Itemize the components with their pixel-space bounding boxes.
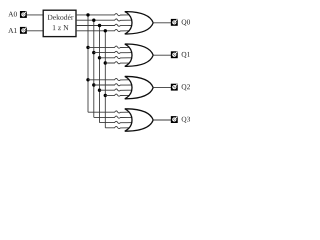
label A0 <box>8 12 13 17</box>
wire tap net V4 to gate U4 input 4 <box>105 94 132 96</box>
wire tap net V4 to gate U3 input 4 <box>105 62 132 64</box>
wire A1 to decoder <box>27 30 43 32</box>
junction dot net V4 at gate U3 <box>104 61 107 64</box>
junction dot net V4 at bus line 4 <box>104 29 107 32</box>
wire output Q1 <box>153 54 171 56</box>
decoder U1 label line 1 <box>48 15 53 20</box>
junction dot net V3 at gate U4 <box>98 89 101 92</box>
label A1 <box>8 28 13 33</box>
label Q1 <box>182 52 187 58</box>
wire tap net V1 to gate U3 input 1 <box>88 46 133 48</box>
junction dot net V3 at bus line 3 <box>98 24 101 27</box>
label Q0 <box>182 20 187 26</box>
or-gate U2 (output Q0) <box>125 12 153 34</box>
wire tap net V2 to gate U3 input 2 <box>94 51 133 53</box>
wire tap net V3 to gate U4 input 3 <box>100 89 133 91</box>
wire output Q0 <box>153 22 171 24</box>
input connector A0 <box>20 11 27 18</box>
wire vertical net V1 <box>87 15 89 112</box>
junction dot net V1 at gate U3 <box>86 46 89 49</box>
wire tap net V2 to gate U5 input 2 <box>94 116 133 118</box>
output connector Q0 <box>171 19 178 26</box>
input connector A1 <box>20 27 27 34</box>
wire tap net V2 to gate U4 input 2 <box>94 84 133 86</box>
output connector Q3 <box>171 116 178 123</box>
wire output Q3 <box>153 119 171 121</box>
wire tap net V3 to gate U5 input 3 <box>100 121 133 123</box>
wire bus line 2 from decoder to or-gate U2 <box>76 19 133 21</box>
wire vertical net V4 <box>104 31 106 128</box>
wire tap net V1 to gate U4 input 1 <box>88 78 133 80</box>
or-gate U4 (output Q2) <box>125 76 153 98</box>
junction dot net V1 at bus line 1 <box>86 13 89 16</box>
output connector Q1 <box>171 51 178 58</box>
or-gate U5 (output Q3) <box>125 109 153 131</box>
wire bus line 4 from decoder to or-gate U2 <box>76 29 133 31</box>
junction dot net V4 at gate U4 <box>104 94 107 97</box>
junction dot net V1 at gate U4 <box>86 78 89 81</box>
output connector Q2 <box>171 84 178 91</box>
decoder U1 box <box>43 10 76 36</box>
wire tap net V4 to gate U5 input 4 <box>105 126 132 128</box>
or-gate U3 (output Q1) <box>125 44 153 66</box>
decoder U1 label line 2 <box>53 25 56 30</box>
junction dot net V2 at gate U3 <box>92 51 95 54</box>
wire tap net V1 to gate U5 input 1 <box>88 111 133 113</box>
junction dot net V2 at bus line 2 <box>92 19 95 22</box>
label Q2 <box>182 84 187 90</box>
wire output Q2 <box>153 87 171 89</box>
junction dot net V2 at gate U4 <box>92 83 95 86</box>
junction dot net V3 at gate U3 <box>98 56 101 59</box>
wire vertical net V2 <box>93 20 95 117</box>
wire bus line 3 from decoder to or-gate U2 <box>76 24 133 26</box>
wire tap net V3 to gate U3 input 3 <box>100 56 133 58</box>
label Q3 <box>182 117 187 123</box>
wire A0 to decoder <box>27 14 43 16</box>
wire bus line 1 from decoder to or-gate U2 <box>76 14 133 16</box>
wire vertical net V3 <box>99 26 101 123</box>
